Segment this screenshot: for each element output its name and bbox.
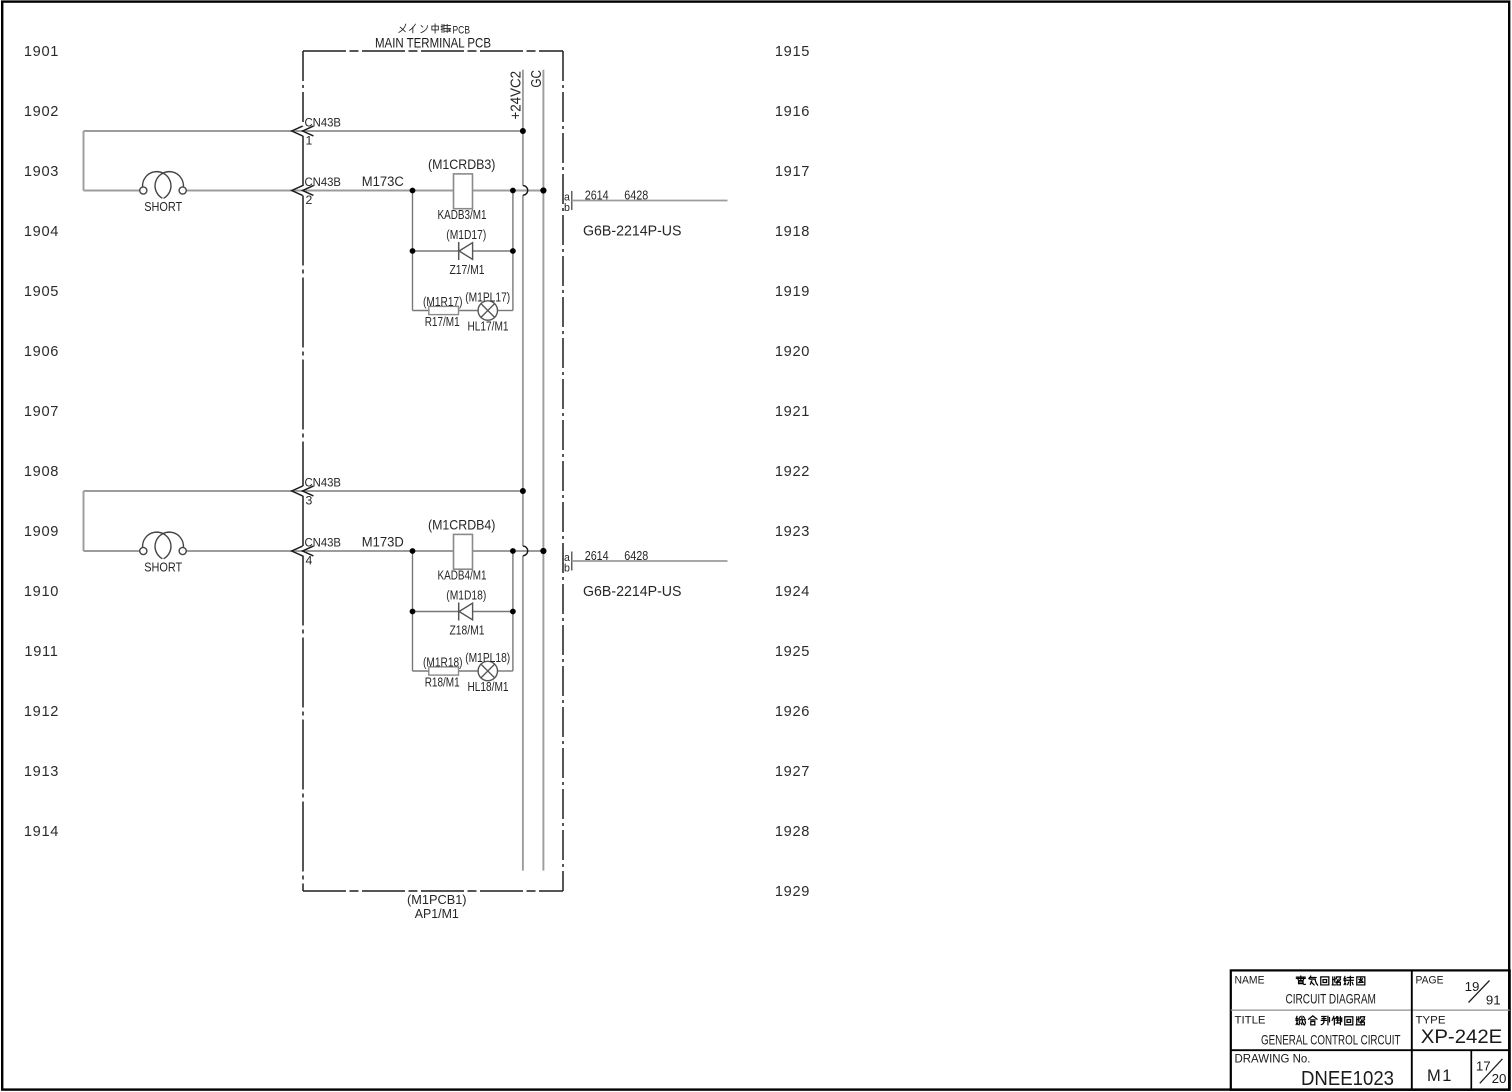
svg-text:1923: 1923 — [775, 524, 810, 540]
svg-text:1902: 1902 — [24, 104, 59, 120]
svg-text:AP1/M1: AP1/M1 — [415, 906, 459, 921]
svg-text:1901: 1901 — [24, 44, 59, 60]
svg-text:1920: 1920 — [775, 344, 810, 360]
svg-text:MAIN TERMINAL PCB: MAIN TERMINAL PCB — [375, 34, 491, 50]
svg-text:1915: 1915 — [775, 44, 810, 60]
svg-text:CIRCUIT DIAGRAM: CIRCUIT DIAGRAM — [1285, 990, 1376, 1006]
svg-text:1905: 1905 — [24, 284, 59, 300]
svg-text:6428: 6428 — [624, 187, 648, 202]
svg-text:(M1PCB1): (M1PCB1) — [407, 892, 467, 907]
svg-text:DNEE1023: DNEE1023 — [1301, 1068, 1394, 1090]
svg-text:3: 3 — [306, 494, 313, 508]
svg-text:1913: 1913 — [24, 764, 59, 780]
svg-text:b: b — [564, 202, 570, 214]
svg-text:(M1R17): (M1R17) — [423, 294, 463, 309]
svg-text:1: 1 — [306, 134, 313, 148]
svg-text:1918: 1918 — [775, 224, 810, 240]
svg-text:1925: 1925 — [775, 644, 810, 660]
svg-text:TITLE: TITLE — [1235, 1014, 1266, 1026]
svg-text:1919: 1919 — [775, 284, 810, 300]
svg-text:PAGE: PAGE — [1416, 975, 1444, 987]
svg-text:R18/M1: R18/M1 — [425, 674, 460, 689]
svg-text:1912: 1912 — [24, 704, 59, 720]
svg-text:KADB4/M1: KADB4/M1 — [438, 568, 487, 583]
svg-text:DRAWING No.: DRAWING No. — [1235, 1052, 1311, 1066]
svg-text:GENERAL CONTROL CIRCUIT: GENERAL CONTROL CIRCUIT — [1261, 1032, 1401, 1048]
svg-text:(M1R18): (M1R18) — [423, 655, 463, 670]
svg-text:SHORT: SHORT — [144, 199, 182, 214]
svg-text:1910: 1910 — [24, 584, 59, 600]
svg-text:CN43B: CN43B — [305, 536, 342, 550]
svg-text:M173C: M173C — [362, 174, 404, 190]
svg-text:HL17/M1: HL17/M1 — [468, 319, 509, 334]
svg-text:R17/M1: R17/M1 — [425, 314, 460, 329]
svg-text:2614: 2614 — [585, 187, 609, 202]
svg-text:1904: 1904 — [24, 224, 59, 240]
svg-text:M173D: M173D — [362, 535, 404, 551]
svg-text:(M1CRDB4): (M1CRDB4) — [428, 517, 496, 532]
svg-text:6428: 6428 — [624, 548, 648, 563]
svg-text:XP-242E: XP-242E — [1421, 1027, 1503, 1048]
svg-text:20: 20 — [1492, 1071, 1507, 1086]
svg-text:2: 2 — [306, 193, 313, 207]
svg-text:CN43B: CN43B — [305, 175, 342, 189]
svg-text:1922: 1922 — [775, 464, 810, 480]
svg-text:NAME: NAME — [1235, 975, 1265, 987]
svg-text:19: 19 — [1465, 979, 1480, 994]
svg-text:+24VC2: +24VC2 — [508, 71, 525, 120]
svg-text:CN43B: CN43B — [305, 116, 342, 130]
svg-text:1909: 1909 — [24, 524, 59, 540]
svg-text:1927: 1927 — [775, 764, 810, 780]
svg-text:(M1D17): (M1D17) — [446, 227, 486, 242]
svg-text:1924: 1924 — [775, 584, 810, 600]
svg-text:TYPE: TYPE — [1416, 1014, 1446, 1026]
svg-text:(M1CRDB3): (M1CRDB3) — [428, 157, 496, 172]
svg-text:GC: GC — [528, 70, 545, 88]
svg-text:1906: 1906 — [24, 344, 59, 360]
svg-text:1929: 1929 — [775, 884, 810, 900]
svg-text:2614: 2614 — [585, 548, 609, 563]
svg-text:1908: 1908 — [24, 464, 59, 480]
svg-text:1928: 1928 — [775, 824, 810, 840]
svg-text:1921: 1921 — [775, 404, 810, 420]
svg-text:1916: 1916 — [775, 104, 810, 120]
svg-text:Z17/M1: Z17/M1 — [450, 262, 485, 277]
svg-text:1926: 1926 — [775, 704, 810, 720]
svg-text:HL18/M1: HL18/M1 — [468, 679, 509, 694]
svg-text:91: 91 — [1486, 993, 1501, 1008]
svg-text:1907: 1907 — [24, 404, 59, 420]
svg-text:G6B-2214P-US: G6B-2214P-US — [583, 584, 682, 600]
svg-text:(M1PL18): (M1PL18) — [465, 650, 510, 665]
svg-text:1911: 1911 — [24, 644, 58, 660]
svg-text:4: 4 — [306, 554, 313, 568]
svg-text:Z18/M1: Z18/M1 — [450, 622, 485, 637]
svg-text:1903: 1903 — [24, 164, 59, 180]
svg-text:1914: 1914 — [24, 824, 59, 840]
svg-text:b: b — [564, 563, 570, 575]
svg-text:17: 17 — [1476, 1058, 1491, 1073]
svg-text:CN43B: CN43B — [305, 476, 342, 490]
svg-text:(M1D18): (M1D18) — [446, 588, 486, 603]
svg-text:M1: M1 — [1427, 1067, 1453, 1085]
svg-text:(M1PL17): (M1PL17) — [465, 290, 510, 305]
svg-text:G6B-2214P-US: G6B-2214P-US — [583, 224, 682, 240]
svg-text:KADB3/M1: KADB3/M1 — [438, 207, 487, 222]
svg-text:SHORT: SHORT — [144, 560, 182, 575]
svg-text:1917: 1917 — [775, 164, 810, 180]
